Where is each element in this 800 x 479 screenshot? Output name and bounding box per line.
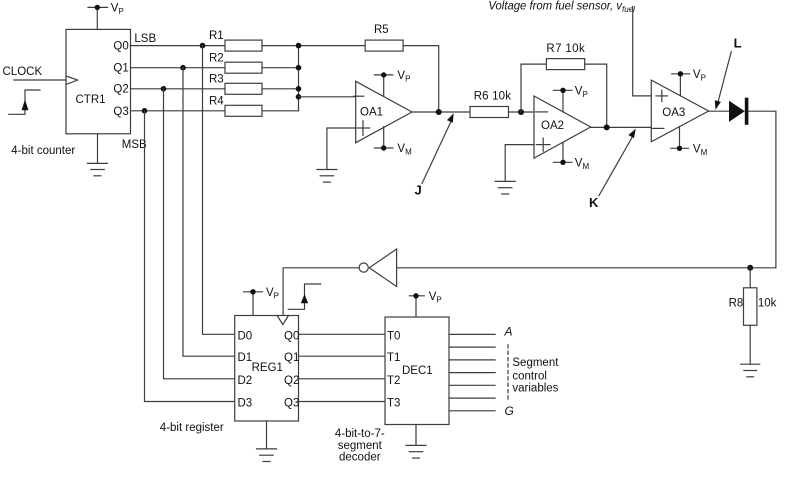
wire Q3 to T3	[299, 401, 386, 403]
svg-text:CTR1: CTR1	[76, 94, 106, 106]
OA3 inverting marker	[652, 127, 664, 129]
svg-text:J: J	[415, 183, 422, 198]
svg-text:L: L	[734, 36, 742, 51]
power VM of OA1	[374, 127, 392, 151]
svg-text:Q0: Q0	[113, 41, 128, 53]
svg-text:4-bit counter: 4-bit counter	[11, 145, 75, 157]
junction dot R8 node	[747, 265, 753, 271]
4-bit counter CTR1 body	[66, 29, 131, 133]
decoder DEC1 body	[385, 317, 449, 425]
ground at OA1 input	[317, 170, 337, 183]
wire OA2 non-inverting input to ground	[505, 145, 534, 182]
wire Q0 to R1	[131, 45, 226, 47]
wire OA3 output to diode	[709, 110, 729, 112]
wire Q3 to R4	[131, 110, 226, 112]
resistor R3	[225, 83, 262, 94]
wire Q2 to T2	[299, 378, 386, 380]
svg-text:D2: D2	[238, 375, 253, 387]
wire Q0 to T0	[299, 333, 386, 335]
power VP of OA1	[374, 72, 392, 96]
svg-text:R4: R4	[209, 95, 224, 107]
wire R4 to bus	[262, 110, 299, 112]
svg-text:Q0: Q0	[284, 330, 299, 342]
segment output wire B	[449, 346, 495, 348]
svg-text:K: K	[589, 195, 599, 210]
svg-text:MSB: MSB	[122, 139, 147, 151]
ground below REG1	[257, 421, 277, 462]
feedback wire to inverter input	[397, 267, 776, 269]
op-amp OA2	[534, 96, 591, 158]
svg-text:4-bit register: 4-bit register	[160, 422, 224, 434]
svg-text:Q3: Q3	[113, 106, 128, 118]
node K arrow	[599, 129, 636, 196]
wire Q3 down to D3	[145, 111, 235, 402]
svg-text:R8: R8	[729, 298, 744, 310]
wire inverter output to REG1 clock	[283, 268, 359, 316]
ground below DEC1	[406, 425, 426, 459]
junction dot node J	[436, 109, 442, 115]
segment output wire F	[449, 397, 495, 399]
svg-text:T0: T0	[387, 330, 400, 342]
wire R6 to OA2 inverting input	[509, 111, 535, 113]
segment output wire D	[449, 372, 495, 374]
rising-edge symbol at REG1 clock	[288, 284, 321, 309]
svg-text:Q1: Q1	[113, 63, 128, 75]
wire R2 to bus	[262, 67, 299, 69]
OA1 non-inverting marker	[357, 121, 370, 136]
diode D1	[729, 100, 747, 124]
wire diode to right drop	[748, 111, 776, 268]
svg-text:R3: R3	[209, 73, 224, 85]
rising-edge symbol at CLOCK	[9, 90, 40, 114]
svg-text:VP: VP	[575, 86, 588, 100]
svg-text:DEC1: DEC1	[402, 365, 433, 377]
svg-text:10k: 10k	[758, 298, 777, 310]
svg-text:R1: R1	[209, 30, 224, 42]
wire down to R8	[749, 268, 751, 288]
4-bit register REG1 body	[235, 316, 299, 422]
segment output wire C	[449, 359, 495, 361]
svg-text:VM: VM	[693, 144, 708, 158]
wire R3 to bus	[262, 88, 299, 90]
svg-text:T1: T1	[387, 352, 400, 364]
wire Q1 to T1	[299, 355, 386, 357]
svg-text:VP: VP	[111, 3, 124, 17]
svg-text:T2: T2	[387, 375, 400, 387]
OA2 inverting marker	[536, 111, 548, 113]
svg-text:T3: T3	[387, 398, 400, 410]
junction dot Q3	[142, 108, 148, 114]
svg-text:G: G	[505, 404, 514, 418]
svg-text:OA1: OA1	[360, 107, 383, 119]
svg-text:VP: VP	[397, 70, 410, 84]
svg-text:VP: VP	[266, 287, 279, 301]
power VP of DEC1	[409, 293, 424, 317]
op-amp OA3	[651, 80, 708, 142]
resistor R2	[225, 62, 262, 73]
svg-text:decoder: decoder	[339, 452, 381, 464]
junction dot OA2 inverting node	[518, 109, 524, 115]
junction dot Q2	[161, 86, 167, 92]
svg-text:OA2: OA2	[541, 120, 564, 132]
power VP of OA2	[554, 88, 573, 112]
OA3 non-inverting marker	[656, 90, 668, 101]
wire R8 to ground	[749, 325, 751, 364]
svg-text:LSB: LSB	[134, 33, 156, 45]
junction dot node K	[604, 124, 610, 130]
wire OA1 non-inverting input to ground	[327, 128, 356, 170]
svg-text:VM: VM	[575, 158, 590, 172]
svg-text:D1: D1	[238, 352, 253, 364]
ground below CTR1	[88, 134, 108, 176]
svg-text:Voltage from fuel sensor, v: Voltage from fuel sensor, v	[488, 0, 622, 12]
wire Q2 down to D2	[164, 89, 235, 379]
svg-text:control: control	[512, 371, 547, 383]
dashed range line A to G	[507, 345, 509, 402]
wire OA2 output to OA3 inverting input	[591, 126, 652, 128]
REG1 clock wedge	[277, 316, 288, 325]
wire Q2 to R3	[131, 88, 226, 90]
svg-text:Q3: Q3	[284, 398, 299, 410]
wire R5 to OA1 output	[403, 46, 439, 112]
resistor R5	[365, 40, 403, 51]
wire up to R7	[521, 64, 546, 112]
svg-text:variables: variables	[512, 383, 558, 395]
wire Q1 down to D1	[183, 68, 235, 357]
resistor R8	[744, 288, 757, 326]
power VP of OA3	[672, 71, 690, 96]
segment output wire E	[449, 384, 495, 386]
power VP of CTR1	[88, 5, 108, 30]
junction dot Q1	[180, 65, 186, 71]
power VM of OA3	[671, 127, 689, 151]
junction dot bus summing node	[296, 94, 302, 100]
CLOCK input wire	[14, 79, 66, 81]
svg-text:CLOCK: CLOCK	[3, 66, 43, 78]
ground at OA2 input	[495, 181, 515, 194]
caption 4-bit-to-7-segment decoder	[335, 428, 385, 464]
wire R7 to OA2 output	[585, 64, 607, 127]
svg-text:Q1: Q1	[284, 352, 299, 364]
svg-text:REG1: REG1	[252, 362, 283, 374]
op-amp OA1	[356, 81, 412, 142]
wire Q1 to R2	[131, 67, 226, 69]
ground below R8	[741, 364, 760, 377]
junction dot bus R1	[296, 43, 302, 49]
wire fuel sensor to OA3 non-inverting input	[633, 7, 652, 96]
power VP of REG1	[244, 289, 263, 315]
svg-text:R6 10k: R6 10k	[474, 91, 512, 103]
svg-text:A: A	[504, 324, 513, 338]
node J arrow	[422, 113, 454, 183]
svg-text:4-bit-to-7-: 4-bit-to-7-	[335, 428, 385, 440]
wire OA1 output	[412, 111, 470, 113]
caption segment control variables	[512, 357, 559, 395]
wire R1 to summing bus and R5	[262, 45, 365, 47]
svg-text:R5: R5	[374, 24, 389, 36]
power VM of OA2	[554, 142, 573, 165]
resistor R1	[225, 40, 262, 51]
clock chevron on CTR1	[66, 76, 78, 85]
svg-text:OA3: OA3	[662, 107, 685, 119]
resistor R4	[225, 105, 262, 116]
svg-text:D0: D0	[238, 330, 253, 342]
svg-text:R7 10k: R7 10k	[546, 43, 585, 55]
svg-text:Q2: Q2	[284, 375, 299, 387]
svg-text:Segment: Segment	[512, 357, 559, 369]
segment output wire A	[449, 333, 495, 335]
resistor R7	[546, 59, 584, 70]
segment output wire G	[449, 410, 495, 412]
junction dot bus R3	[296, 86, 302, 92]
resistor R6	[470, 107, 509, 118]
svg-text:segment: segment	[338, 440, 383, 452]
junction dot Q0	[200, 43, 206, 49]
svg-text:VP: VP	[429, 291, 442, 305]
svg-text:VP: VP	[693, 69, 706, 83]
inverter gate	[359, 249, 397, 287]
svg-text:Q2: Q2	[113, 84, 128, 96]
OA2 non-inverting marker	[536, 138, 550, 151]
OA1 inverting marker	[354, 95, 364, 97]
wire bus to OA1 inverting input	[299, 96, 356, 98]
wire Q0 down to D0	[203, 46, 235, 335]
svg-text:R2: R2	[209, 52, 224, 64]
summing bus vertical wire	[298, 46, 300, 111]
svg-text:D3: D3	[238, 398, 253, 410]
node L arrow	[715, 52, 732, 110]
svg-text:VM: VM	[397, 143, 412, 157]
junction dot bus R2	[296, 65, 302, 71]
